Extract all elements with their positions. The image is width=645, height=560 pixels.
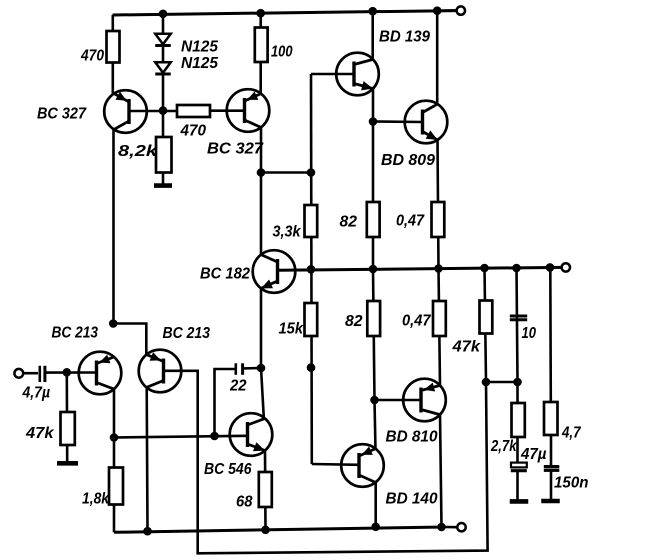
wire BD139 emitter down: [372, 88, 375, 121]
svg-text:0,47: 0,47: [396, 213, 425, 230]
wire rail to top terminal: [437, 9, 456, 12]
transistor Q4 BC213: [79, 352, 122, 395]
resistor 47k (input): [61, 412, 75, 445]
wire output rail: [278, 267, 562, 270]
label N125 upper: [181, 39, 218, 56]
svg-text:15k: 15k: [279, 321, 305, 338]
label 47k feedback: [451, 339, 481, 356]
wire BD810 base: [375, 399, 422, 402]
output terminal (mid rail): [562, 263, 570, 271]
label N125 lower: [181, 55, 218, 72]
wire input terminal to capacitor: [23, 372, 38, 375]
transistor Q1 BC327: [104, 90, 147, 133]
svg-text:68: 68: [236, 494, 253, 511]
capacitor 10: [510, 316, 527, 320]
resistor 68: [259, 472, 272, 507]
label BC 213 Q5: [163, 325, 211, 342]
wire 47u capacitor to ground: [516, 472, 519, 501]
capacitor 47u (electrolytic): [511, 463, 527, 471]
ground (47u): [510, 499, 529, 504]
svg-text:47k: 47k: [451, 339, 481, 356]
wire Q4 collector to base line: [113, 390, 116, 438]
junction diode node / base network: [159, 106, 168, 115]
junction 82 lower / BD140 emitter / BD810 base: [370, 396, 379, 405]
label 8,2k: [118, 143, 159, 160]
svg-text:22: 22: [229, 378, 247, 395]
wire bottom rail to output terminal: [445, 526, 457, 529]
svg-text:0,47: 0,47: [402, 313, 432, 330]
wire 82 resistor lower column: [373, 269, 375, 400]
svg-text:150n: 150n: [554, 475, 589, 492]
label 47k input: [25, 425, 55, 442]
junction Q2 collector node: [257, 168, 266, 177]
svg-text:BC 213: BC 213: [163, 325, 211, 342]
junction 22 cap / BC182 emitter / BC546 collector: [257, 364, 266, 373]
label 68: [236, 494, 253, 511]
wire 100 resistor column / Q2 emitter: [259, 13, 262, 95]
junction feedback divider / 10 cap: [513, 378, 522, 387]
junction top rail / 100 resistor: [256, 9, 265, 18]
wire BD140 base: [312, 463, 359, 466]
wire BD810 collector to bottom rail: [440, 415, 442, 528]
svg-text:47k: 47k: [25, 425, 55, 442]
junction bottom rail / 68 resistor: [261, 526, 270, 535]
ground (input 47k): [57, 461, 78, 466]
wire Q2 collector down to node: [260, 127, 263, 173]
transistor Q7 BD139: [336, 53, 379, 96]
wire node base Q1 to resistor 470: [129, 110, 177, 113]
wire input capacitor to Q4 base: [46, 371, 97, 374]
svg-text:1,8k: 1,8k: [82, 491, 110, 508]
wire 1,8k resistor column: [113, 438, 116, 533]
svg-text:BC 327: BC 327: [37, 106, 87, 123]
wire 0,47 lower to BD810 emitter: [439, 269, 441, 386]
label BD 140: [386, 491, 438, 508]
junction input node: [63, 368, 72, 377]
bottom rail terminal: [457, 523, 465, 531]
label 1,8k: [82, 491, 110, 508]
wire 10 capacitor column: [517, 268, 518, 382]
resistor 0,47 (lower): [433, 301, 446, 336]
wire BD809 collector to rail: [436, 11, 439, 105]
svg-text:BD 140: BD 140: [386, 491, 438, 508]
wire resistor 470 to base Q2: [210, 109, 245, 112]
wire diode chain column: [162, 14, 165, 111]
wire BD809 base: [373, 120, 423, 123]
svg-text:2,7k: 2,7k: [490, 438, 518, 455]
transistor Q8 BD809: [405, 101, 448, 144]
svg-text:8,2k: 8,2k: [118, 143, 159, 160]
transistor Q10 BD140: [341, 444, 384, 487]
wire BD140 collector to bottom rail: [374, 481, 377, 527]
resistor 15k: [305, 303, 318, 336]
capacitor 150n: [544, 467, 560, 471]
wire driver column BD139 base to BD140 base: [310, 74, 313, 464]
diode N125 (upper): [155, 34, 171, 46]
resistor 82 (lower): [367, 301, 380, 336]
wire BC546 base line: [114, 436, 248, 438]
label BD 810: [386, 429, 438, 446]
label 2,7k: [490, 438, 518, 455]
svg-text:47µ: 47µ: [520, 446, 547, 463]
svg-text:N125: N125: [181, 39, 218, 56]
junction bottom rail / Q5 collector: [143, 527, 152, 536]
resistor 0,47 (upper): [432, 202, 445, 237]
label 82 lower: [345, 313, 363, 330]
resistor 100: [255, 28, 268, 63]
junction bottom rail / BD810 collector: [437, 523, 446, 532]
wire 470 resistor / BC327 Q1 column: [112, 15, 115, 95]
wire 82 emitter resistor top column: [372, 122, 375, 270]
wire 8,2k resistor to ground: [162, 111, 165, 186]
wire 47k feedback resistor column: [485, 268, 487, 382]
wire 22 capacitor riser: [215, 369, 236, 436]
label BD 139: [379, 29, 430, 46]
resistor 47k (feedback): [480, 301, 493, 334]
junction Q4 collector / BC546 base line: [110, 433, 119, 442]
junction output rail / 0,47 resistors: [434, 264, 443, 273]
junction driver column upper: [307, 168, 316, 177]
svg-text:N125: N125: [181, 55, 218, 72]
resistor 1,8k: [109, 468, 123, 505]
junction 22 cap riser / base line: [210, 432, 219, 441]
junction top rail / BD809 collector: [433, 6, 442, 15]
label BC 182: [200, 266, 250, 283]
diode N125 (lower): [155, 62, 171, 74]
label 47u: [520, 446, 547, 463]
capacitor 22: [236, 363, 243, 375]
label BC 546: [204, 461, 252, 478]
svg-text:BD 810: BD 810: [386, 429, 438, 446]
wire rail to mid terminal: [550, 266, 561, 269]
positive supply terminal: [457, 6, 465, 14]
wire Q1 collector down to diff-pair tail node: [112, 130, 115, 323]
junction output rail / 10 cap: [512, 264, 521, 273]
junction output rail / 4,7 column: [546, 263, 555, 272]
junction output rail / 82 resistors: [369, 265, 378, 274]
wire BC546 emitter to 68 resistor: [264, 450, 267, 530]
resistor 4,7: [544, 402, 558, 435]
junction bottom rail / BD140 collector: [371, 523, 380, 532]
resistor 82 (upper): [367, 202, 380, 237]
wire feedback line to BC213 Q5 base: [164, 371, 488, 554]
label 15k: [279, 321, 305, 338]
svg-text:BC 213: BC 213: [52, 325, 99, 342]
label 0,47 upper: [396, 213, 425, 230]
label 82 upper: [340, 214, 358, 231]
svg-text:82: 82: [345, 313, 363, 330]
label 100: [271, 44, 293, 61]
svg-text:100: 100: [271, 44, 293, 61]
wire positive supply rail: [113, 11, 457, 15]
ground (8,2k): [154, 183, 172, 188]
junction feedback divider 47k/2,7k: [482, 378, 491, 387]
label 4,7: [561, 425, 582, 442]
input terminal: [14, 369, 23, 378]
resistor 2,7k: [512, 403, 525, 437]
wire 150n capacitor to ground: [550, 471, 553, 501]
ground (150n): [541, 499, 560, 504]
label 150n: [554, 475, 589, 492]
svg-text:3,3k: 3,3k: [273, 224, 302, 241]
svg-text:82: 82: [340, 214, 358, 231]
svg-text:BD 809: BD 809: [381, 152, 435, 169]
svg-text:10: 10: [522, 325, 537, 342]
junction diff pair tail: [109, 319, 118, 328]
svg-text:470: 470: [180, 123, 207, 140]
wire BC182 emitter down to node: [260, 288, 263, 368]
resistor 470 (base coupling, horizontal): [177, 105, 210, 117]
svg-text:BC 327: BC 327: [207, 141, 264, 158]
wire input 47k resistor to ground: [66, 372, 69, 462]
junction output rail / driver column: [307, 265, 316, 274]
wire BD139 collector to rail: [371, 11, 374, 60]
svg-text:470: 470: [80, 48, 104, 65]
wire link Q2 column to driver column: [261, 171, 311, 174]
wire node 47k to 2,7k junction: [486, 381, 518, 384]
label 22: [229, 378, 247, 395]
label 0,47 lower: [402, 313, 432, 330]
wire BC213 Q5 collector to bottom rail: [145, 387, 148, 531]
junction BD139 emitter / BD809 base: [369, 117, 378, 126]
wire BD809 emitter to 0,47 resistor: [438, 140, 439, 269]
label 470: [80, 48, 104, 65]
label BC 213 Q4: [52, 325, 99, 342]
wire 2,7k to 47u capacitor: [516, 382, 519, 463]
label BC 327 Q2: [207, 141, 264, 158]
wire 4,7 resistor column: [549, 267, 552, 402]
transistor Q2 BC327: [227, 89, 270, 132]
label 4,7u: [22, 385, 50, 402]
resistor 470 (supply to Q1): [107, 31, 120, 63]
wire diff pair tail link: [113, 324, 146, 356]
junction output rail / 47k: [480, 264, 489, 273]
junction 22 cap line / driver column: [307, 363, 316, 372]
transistor Q6 BC546: [230, 413, 273, 456]
label 3,3k: [273, 224, 302, 241]
capacitor 4,7u (input): [40, 366, 45, 382]
label BD 809: [381, 152, 435, 169]
junction top rail / BD139 collector: [368, 7, 377, 16]
svg-text:BD 139: BD 139: [379, 29, 430, 46]
svg-text:4,7: 4,7: [561, 425, 582, 442]
label 10: [522, 325, 537, 342]
wire bottom rail: [114, 527, 445, 532]
wire 22 capacitor to node: [243, 367, 261, 370]
resistor 3,3k: [305, 205, 318, 237]
wire BD139 base: [311, 73, 354, 76]
transistor Q9 BD810: [403, 379, 446, 422]
resistor 8,2k: [156, 137, 172, 173]
label BC 327 Q1: [37, 106, 87, 123]
junction top rail / diodes: [159, 10, 168, 19]
transistor Q5 BC213: [139, 350, 182, 393]
svg-text:BC 546: BC 546: [204, 461, 252, 478]
svg-text:BC 182: BC 182: [200, 266, 250, 283]
transistor Q3 BC182: [253, 250, 296, 293]
wire BC182 collector up: [260, 173, 263, 256]
label 470 horizontal: [180, 123, 207, 140]
wire 4,7 resistor to 150n capacitor: [550, 435, 553, 466]
wire BC546 collector up to node: [261, 368, 264, 418]
svg-text:4,7µ: 4,7µ: [22, 385, 50, 402]
wire BD140 emitter up to node: [375, 400, 376, 450]
